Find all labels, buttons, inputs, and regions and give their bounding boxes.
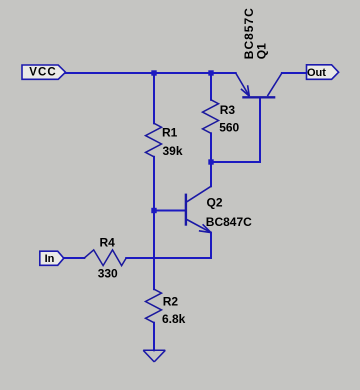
- net flag In: [40, 251, 64, 265]
- wire R3 bottom to base junction: [210, 133, 212, 162]
- svg-text:BC847C: BC847C: [206, 215, 252, 229]
- wire VCC rail middle: [154, 72, 211, 74]
- net flag Out: [307, 65, 339, 80]
- Q1 emitter diagonal: [236, 73, 250, 96]
- transistor Q2 (NPN BC847C): [186, 186, 211, 232]
- wire R2 bottom to ground: [153, 323, 155, 351]
- Q1 emitter arrow: [248, 85, 250, 96]
- wire In flag to R4: [64, 257, 85, 259]
- wire VCC junction down to R1 top: [153, 73, 155, 123]
- junction VCC/R3: [208, 70, 213, 75]
- Q2 emitter diagonal: [187, 220, 211, 233]
- svg-text:Q2: Q2: [207, 196, 223, 210]
- wire Q1 base vertical: [259, 98, 261, 162]
- wire Q2 base lead: [154, 210, 185, 212]
- wire In rail horizontal: [126, 257, 211, 259]
- svg-text:39k: 39k: [163, 144, 183, 158]
- Q2 emitter arrow: [203, 224, 211, 232]
- junction VCC/R1: [151, 70, 156, 75]
- wire R1 bottom to node junction: [153, 157, 155, 211]
- Q2 collector diagonal: [187, 186, 211, 202]
- wire VCC rail left: [65, 72, 154, 74]
- resistor R1 symbol: [146, 123, 162, 157]
- wire node junction down to In rail: [153, 211, 155, 259]
- wire Q1 collector to Out: [282, 72, 307, 74]
- svg-text:Out: Out: [307, 67, 326, 79]
- svg-text:R3: R3: [220, 103, 236, 117]
- svg-text:560: 560: [219, 121, 239, 135]
- svg-text:R1: R1: [162, 125, 178, 139]
- svg-text:In: In: [45, 253, 55, 265]
- resistor R3 symbol: [203, 100, 219, 134]
- resistor R4 symbol: [84, 250, 126, 266]
- svg-text:6.8k: 6.8k: [162, 312, 186, 326]
- wire VCC rail to Q1 emitter: [211, 72, 236, 74]
- transistor Q1 (PNP BC857C): [236, 73, 282, 97]
- wire node to R2 top: [153, 258, 155, 289]
- Q1 base bar: [242, 96, 275, 98]
- net flag VCC: [22, 65, 66, 79]
- svg-text:VCC: VCC: [29, 67, 57, 79]
- wire VCC junction2 down to R3 top: [210, 73, 212, 100]
- wire base junction to Q1 base corner: [211, 161, 260, 163]
- svg-text:R4: R4: [100, 235, 116, 249]
- Q1 collector diagonal: [267, 73, 282, 96]
- wire base junction down to Q2 collector: [210, 162, 212, 186]
- resistor R2 symbol: [146, 289, 162, 323]
- svg-text:330: 330: [98, 267, 118, 281]
- Q2 base bar: [185, 194, 187, 226]
- junction R3/Q1 base/Q2 collector: [208, 159, 213, 164]
- svg-text:R2: R2: [163, 294, 179, 308]
- svg-text:Q1: Q1: [255, 43, 269, 59]
- wire Q2 emitter down: [210, 233, 212, 258]
- ground: [143, 350, 165, 362]
- junction R1/Q2 base: [151, 208, 156, 213]
